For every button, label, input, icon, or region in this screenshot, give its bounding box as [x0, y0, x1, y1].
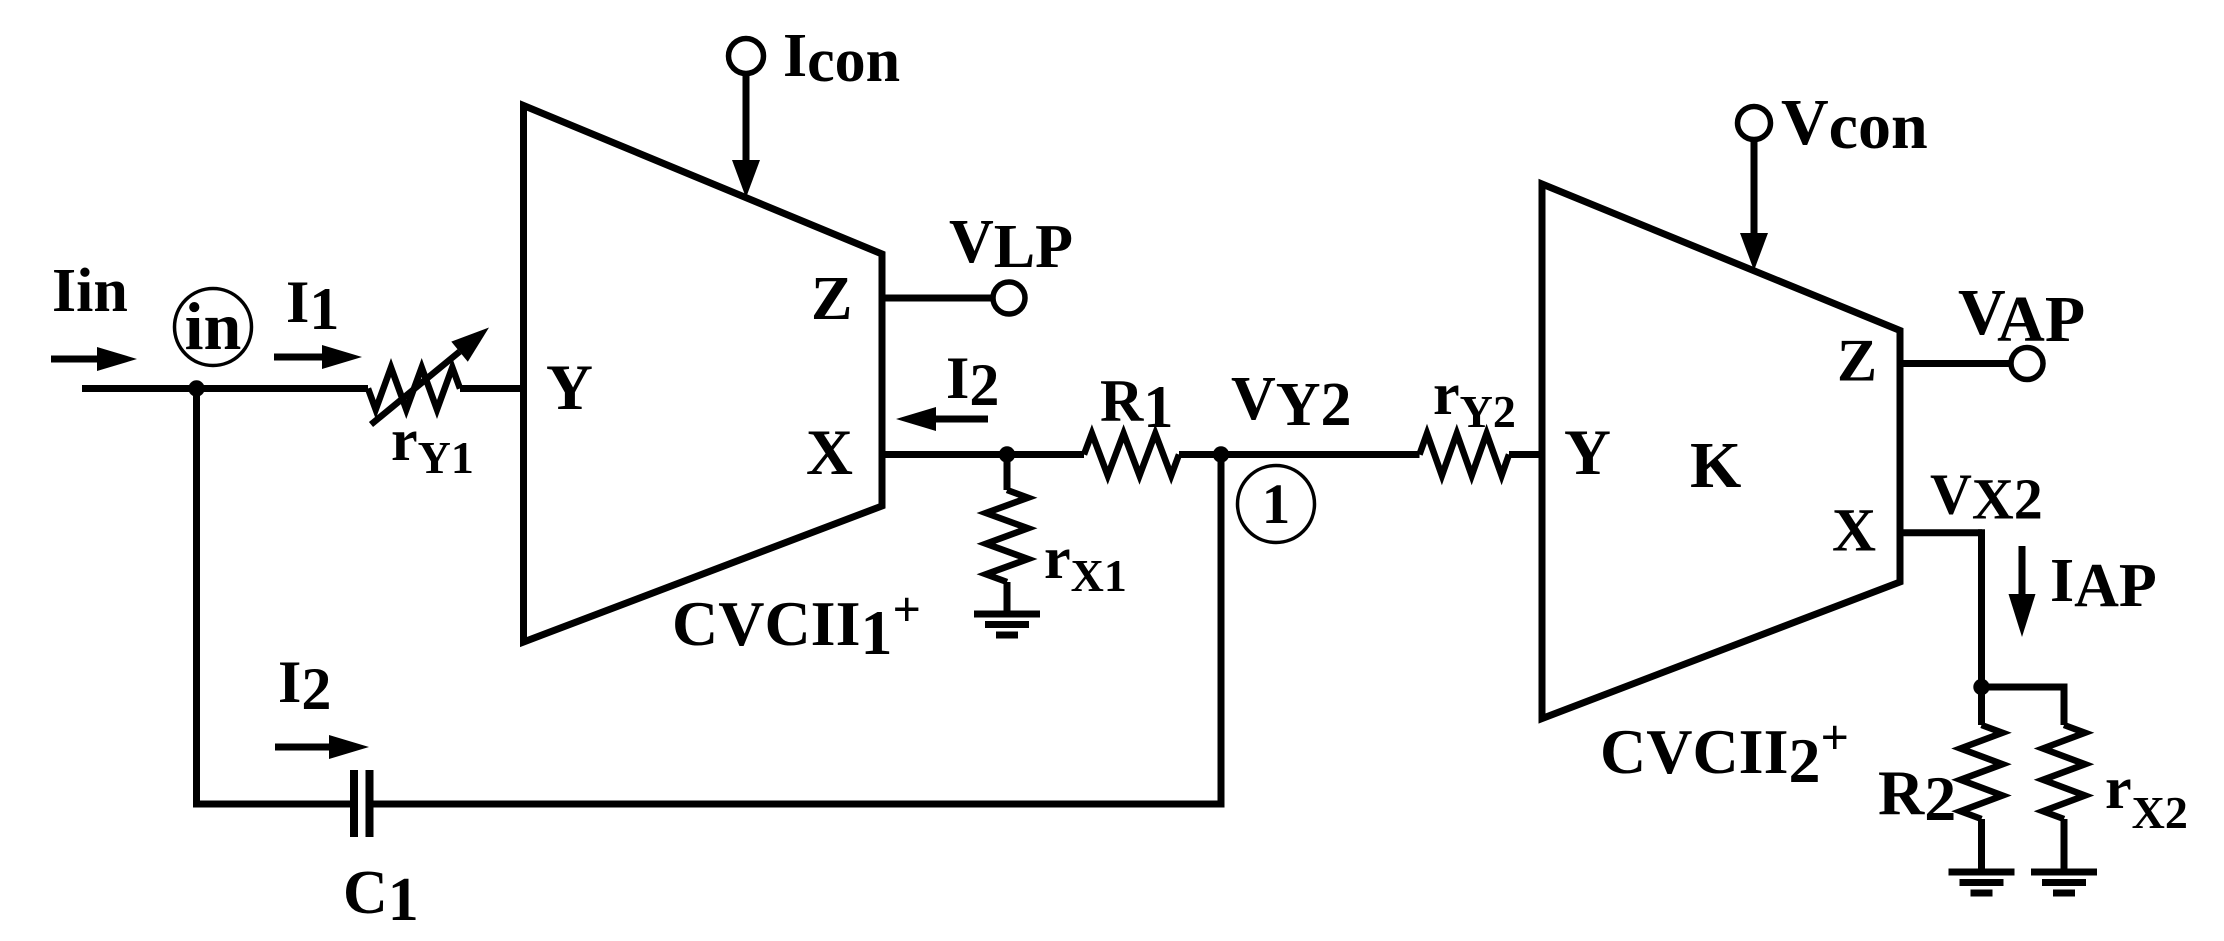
svg-text:rY1: rY1: [391, 407, 474, 483]
wire X of CVCII2 horizontal: [1900, 529, 1982, 536]
svg-text:rY2: rY2: [1433, 361, 1516, 437]
wire input horizontal to Y of CVCII1: [82, 385, 524, 392]
svg-text:I2: I2: [278, 649, 331, 722]
svg-text:Z: Z: [1837, 328, 1877, 394]
svg-text:Icon: Icon: [783, 22, 900, 95]
svg-text:R1: R1: [1100, 368, 1173, 440]
resistor rX1 zigzag: [986, 490, 1028, 582]
terminal Vcon circle: [1738, 107, 1771, 140]
wire rX1 upper stub: [1004, 455, 1011, 491]
svg-text:I1: I1: [286, 269, 339, 342]
wire Z of CVCII2 to VAP terminal: [1900, 360, 2011, 367]
svg-text:C1: C1: [343, 859, 419, 934]
wire rX2 lower stub: [2061, 819, 2068, 872]
wire feedback vertical left: [193, 389, 200, 805]
ground under rX1: [974, 614, 1040, 635]
arrow IAP downward: [2009, 546, 2036, 637]
svg-text:VAP: VAP: [1958, 276, 2085, 356]
resistor rY1 variable zigzag: [368, 368, 460, 410]
junction dot node 1: [1213, 446, 1229, 462]
svg-text:in: in: [185, 288, 242, 364]
wire rY2 to Y of CVCII2: [1509, 451, 1542, 458]
svg-text:VY2: VY2: [1231, 365, 1352, 439]
node in circle label: [175, 288, 252, 366]
junction dot R2 rX2: [1973, 679, 1989, 695]
terminal Icon circle: [729, 39, 764, 74]
wire junction to rX2 branch: [1982, 684, 2065, 691]
wire Z of CVCII1 to VLP terminal: [882, 295, 994, 302]
svg-text:VX2: VX2: [1930, 462, 2043, 532]
wire X of CVCII1 to R1: [882, 451, 1084, 458]
ground under rX2: [2031, 872, 2097, 893]
resistor rX2 zigzag: [2043, 725, 2085, 819]
ground under R2: [1949, 872, 2015, 893]
arrow I2 lower: [275, 735, 369, 759]
node 1 circled label: [1238, 466, 1315, 543]
terminal VAP circle: [2011, 348, 2043, 380]
svg-text:rX1: rX1: [1044, 525, 1127, 601]
svg-text:Y: Y: [1564, 417, 1611, 489]
arrow I1: [274, 345, 362, 369]
svg-text:K: K: [1690, 429, 1741, 502]
wire feedback bottom left segment: [193, 801, 351, 808]
svg-text:Vcon: Vcon: [1781, 86, 1928, 163]
wire X down to R2 junction: [1978, 529, 1985, 687]
svg-text:Y: Y: [546, 352, 593, 424]
svg-text:IAP: IAP: [2050, 547, 2157, 620]
svg-text:VLP: VLP: [949, 208, 1073, 281]
op-amp U1 CVCII1 trapezoid body: [524, 106, 883, 643]
svg-text:X: X: [1832, 498, 1876, 565]
resistor R2 zigzag: [1961, 725, 2003, 819]
svg-text:R2: R2: [1878, 757, 1956, 834]
terminal VLP circle: [993, 282, 1025, 314]
wire R2 lower stub: [1978, 819, 1985, 872]
wire R1 to node 1 to rY2: [1179, 451, 1420, 458]
wire rX1 lower stub: [1004, 582, 1011, 614]
node in junction dot: [188, 380, 204, 396]
op-amp U2 CVCII2 trapezoid body: [1542, 184, 1900, 719]
resistor R1 zigzag: [1084, 434, 1179, 476]
wire feedback bottom right segment: [373, 801, 1225, 808]
svg-text:CVCII1+: CVCII1+: [672, 581, 921, 668]
svg-text:Z: Z: [811, 265, 852, 333]
resistor rY1 wiper arrow: [371, 328, 489, 425]
arrow I2 upper pointing left: [896, 407, 988, 431]
wire R2 upper stub: [1978, 687, 1985, 725]
arrow Iin: [51, 347, 137, 371]
svg-text:1: 1: [1262, 473, 1291, 536]
wire rX2 upper stub: [2061, 684, 2068, 726]
svg-text:CVCII2+: CVCII2+: [1600, 709, 1849, 796]
control arrow Icon into CVCII1: [732, 74, 760, 198]
svg-text:rX2: rX2: [2105, 755, 2188, 838]
svg-text:I2: I2: [946, 345, 999, 418]
control arrow Vcon into CVCII2: [1740, 140, 1768, 271]
svg-text:X: X: [806, 417, 853, 489]
wire node1 vertical: [1218, 455, 1225, 805]
svg-text:Iin: Iin: [52, 257, 128, 325]
capacitor C1: [354, 770, 370, 837]
resistor rY2 zigzag: [1420, 434, 1510, 476]
junction dot rX1: [999, 446, 1015, 462]
